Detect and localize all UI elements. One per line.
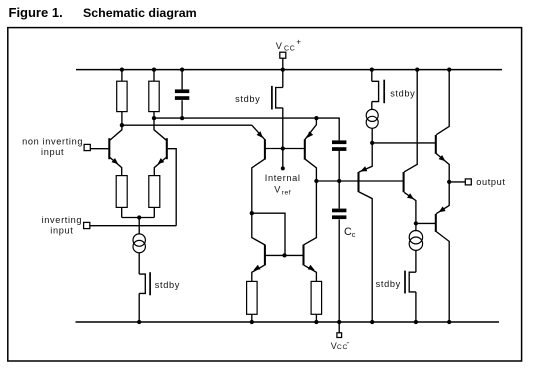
wire collector line right (R2 node)	[154, 118, 339, 140]
resistor R4 (right emitter)	[149, 176, 160, 208]
junction dot mirror base	[281, 146, 285, 150]
wire M4 to bottom rail	[415, 292, 417, 322]
junction dot rail M3	[370, 67, 374, 71]
resistor R3 (left emitter)	[116, 176, 127, 208]
wire tail to current source I1	[138, 218, 140, 235]
transistor Q6 (right lower NPN)	[302, 245, 304, 266]
node inverting input terminal	[84, 222, 90, 228]
junction dot Q3 collector node	[250, 211, 254, 215]
junction dot R6 rail	[314, 320, 318, 324]
resistor R2 (right collector load)	[153, 70, 155, 82]
svg-text:V: V	[276, 41, 283, 51]
wire Q3 collector to lower base line	[252, 213, 285, 255]
svg-text:stdby: stdby	[376, 279, 401, 289]
junction dot rail Q9 collector	[447, 67, 451, 71]
wire Q9 base line	[372, 142, 436, 144]
wire node to current source I3	[415, 223, 417, 231]
transistor Q3 (left mirror PNP)	[264, 139, 266, 159]
node R2/Q2 collector junction	[152, 116, 156, 120]
transistor Q8 (center NPN)	[403, 172, 405, 192]
transistor M2 stdby MOSFET (Vref)	[276, 88, 283, 108]
junction dot cap rail	[337, 320, 341, 324]
junction dot Q8 emitter node	[414, 221, 418, 225]
current source I2	[366, 109, 378, 121]
wire C3 to bottom rail	[338, 219, 340, 322]
wire M1 to bottom rail	[138, 293, 140, 322]
junction dot rail R1	[120, 67, 124, 71]
wire emitter join line	[122, 217, 155, 219]
transistor Q10 (output bottom PNP)	[435, 214, 437, 232]
wire C2 to C3	[338, 151, 340, 209]
transistor Q2 (right input NPN)	[166, 138, 168, 159]
wire third stage base line	[316, 180, 403, 182]
svg-text:+: +	[296, 37, 301, 46]
svg-text:inverting: inverting	[42, 215, 83, 225]
junction dot cap column	[337, 179, 341, 183]
wire Q2 base to inverting input riser	[168, 149, 177, 226]
junction dot Q7 emitter node	[370, 141, 374, 145]
junction dot rail2 Q4 emitter	[314, 116, 318, 120]
svg-text:c: c	[352, 230, 356, 239]
resistor R1 (left collector load)	[121, 70, 123, 82]
wire rail to M2	[282, 70, 284, 88]
junction dot Q10 collector rail	[447, 320, 451, 324]
capacitor C3 Cc	[332, 209, 346, 213]
transistor M3 stdby MOSFET (top right)	[372, 81, 379, 101]
resistor R5 (Q5 emitter)	[247, 281, 258, 314]
junction dot rail R2	[152, 67, 156, 71]
wire collector line left (R1 node)	[122, 124, 252, 126]
wire M2 down to PNP base line	[282, 108, 284, 149]
wire to internal Vref node	[282, 149, 284, 169]
junction dot bottom pair base	[282, 253, 286, 257]
svg-text:Schematic diagram: Schematic diagram	[83, 6, 197, 20]
node R1/Q1 collector junction	[120, 123, 124, 127]
wire bottom supply rail Vcc-	[76, 321, 500, 323]
junction dot M1 rail	[137, 320, 141, 324]
junction dot M4 rail	[414, 320, 418, 324]
wire M3 to current source I2	[371, 102, 373, 110]
transistor Q9 (output top NPN)	[435, 135, 437, 154]
wire bottom pair base line	[265, 254, 304, 256]
junction dot rail Vcc+	[281, 67, 285, 71]
svg-text:-: -	[346, 337, 349, 347]
wire I3 to M4	[415, 250, 417, 272]
svg-text:output: output	[476, 177, 505, 187]
junction dot Q7 collector rail	[370, 320, 374, 324]
wire top supply rail Vcc+	[76, 69, 502, 71]
svg-text:input: input	[50, 226, 73, 236]
junction dot rail Q8 collector	[415, 67, 419, 71]
transistor Q7 (third stage PNP)	[357, 172, 359, 192]
wire I2 to Q7 node	[371, 128, 373, 143]
transistor M1 stdby MOSFET (input stage)	[139, 274, 145, 293]
svg-text:non inverting: non inverting	[22, 137, 83, 147]
wire Q10 base line	[416, 222, 435, 224]
svg-text:input: input	[41, 147, 64, 157]
wire non inverting input to Q1 base	[90, 148, 108, 150]
svg-text:ref: ref	[282, 190, 292, 197]
junction dot C1 lower	[180, 116, 184, 120]
svg-text:stdby: stdby	[155, 280, 180, 290]
transistor Q5 (left lower NPN)	[264, 245, 266, 266]
svg-text:stdby: stdby	[235, 94, 260, 104]
junction dot rail C1	[180, 67, 184, 71]
junction dot R5 rail	[250, 320, 254, 324]
junction dot tail	[137, 215, 141, 219]
capacitor C2 (upper)	[332, 140, 346, 144]
wire PNP pair base line	[265, 148, 305, 150]
junction dot Q4 collector node	[314, 179, 318, 183]
svg-text:stdby: stdby	[390, 88, 415, 98]
svg-text:V: V	[274, 185, 281, 195]
junction dot output node	[447, 180, 451, 184]
resistor R6 (Q6 emitter)	[311, 281, 322, 314]
svg-text:Figure 1.: Figure 1.	[9, 5, 63, 20]
wire I1 to M1	[138, 253, 140, 274]
node Internal Vref	[281, 166, 285, 170]
svg-text:CC: CC	[284, 45, 295, 52]
node non inverting input terminal	[84, 144, 90, 150]
wire inverting input line	[90, 225, 176, 227]
transistor Q4 (right mirror PNP)	[304, 139, 306, 159]
current source I3	[409, 231, 422, 244]
current source I1 (tail)	[133, 234, 145, 246]
transistor M4 stdby MOSFET (output stage)	[409, 272, 416, 292]
transistor Q1 (left input NPN)	[108, 138, 110, 159]
node output terminal	[449, 181, 465, 183]
wire rail to M3	[371, 70, 373, 82]
capacitor C1 (supply bypass)	[181, 70, 183, 90]
node Vcc- terminal	[338, 322, 340, 333]
svg-text:Internal: Internal	[265, 173, 301, 183]
